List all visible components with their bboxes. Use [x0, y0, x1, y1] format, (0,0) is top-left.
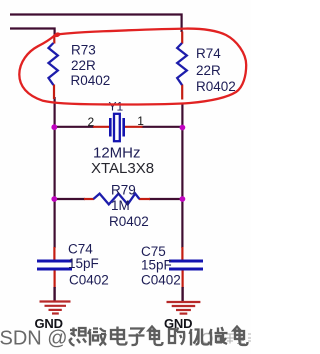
pin lead C75 top: [181, 247, 183, 260]
node junction dot R79-row right: [180, 196, 186, 202]
svg-text:15pF: 15pF: [141, 258, 172, 273]
wire top net1 horizontal: [10, 15, 182, 33]
龟: [149, 327, 163, 346]
的: [169, 328, 184, 345]
svg-text:22R: 22R: [196, 63, 221, 78]
crystal body rect: [114, 114, 120, 141]
svg-text:XTAL3X8: XTAL3X8: [91, 160, 154, 177]
svg-text:1: 1: [137, 114, 144, 128]
watermark CSDN pseudo-CJK glyphs: [69, 327, 248, 346]
wire crystal row left: [55, 126, 94, 128]
svg-text:R79: R79: [111, 183, 136, 198]
pin lead C75 bottom to ground: [182, 271, 184, 289]
node junction dot R79-row left: [51, 196, 57, 202]
watermark corner logo circle: [202, 334, 212, 344]
子: [129, 329, 145, 346]
watermark corner text (faint): [215, 334, 251, 344]
svg-text:2: 2: [88, 115, 95, 129]
机: [190, 329, 210, 346]
pin lead R79 left: [84, 198, 94, 200]
wire C74 to ground: [53, 287, 55, 301]
pin lead C74 top: [53, 247, 55, 260]
resistor R73: [49, 43, 58, 85]
svg-text:C0402: C0402: [141, 273, 181, 288]
svg-text:SDN @: SDN @: [0, 328, 68, 350]
pin lead C74 bottom to ground: [53, 271, 55, 289]
svg-text:C74: C74: [68, 242, 93, 257]
wire R73 bottom to crystal row: [53, 97, 55, 126]
电: [111, 327, 127, 345]
pin lead R73 bottom: [53, 85, 55, 100]
svg-text:15pF: 15pF: [68, 256, 99, 271]
做: [88, 328, 106, 346]
svg-text:R74: R74: [196, 46, 221, 61]
crystal right plate: [122, 118, 125, 137]
node junction dot crystal-row right: [180, 125, 186, 131]
svg-text:R0402: R0402: [196, 79, 236, 94]
wire R79 row right segment: [149, 198, 182, 200]
capacitor C75: [169, 260, 203, 271]
svg-text:1M: 1M: [111, 198, 130, 213]
pin lead R74 top: [181, 32, 183, 44]
svg-text:C0402: C0402: [69, 272, 109, 287]
wire C75 to ground: [181, 287, 183, 301]
wire crystal row right: [142, 126, 183, 128]
ground (right, under C75): [167, 302, 201, 314]
node junction dot crystal-row left: [51, 124, 57, 130]
wire right vertical R79 row to C75: [181, 199, 183, 248]
crystal Y1: [109, 114, 125, 141]
pin lead R74 bottom: [181, 85, 183, 100]
capacitor C74: [37, 260, 72, 271]
annotation red ellipse around R73 R74: [19, 29, 246, 105]
wire left vertical R79 row to C74: [53, 199, 55, 248]
svg-text:R0402: R0402: [109, 214, 149, 229]
pin lead R73 top: [53, 35, 55, 44]
annotation red ellipse knot at stroke overlap: [54, 33, 60, 36]
械: [210, 327, 228, 346]
pin lead R79 right: [139, 198, 150, 200]
resistor R79: [93, 194, 139, 205]
pin lead crystal pin2: [93, 126, 109, 128]
ground (left, under C74): [40, 302, 71, 314]
svg-text:Y1: Y1: [109, 100, 124, 114]
wire top net2 horizontal: [10, 29, 55, 37]
wire R74 bottom to crystal row: [181, 103, 183, 126]
svg-text:22R: 22R: [71, 58, 96, 73]
svg-text:R0402: R0402: [71, 73, 111, 88]
crystal left plate: [109, 118, 112, 137]
wire left vertical crystal row to R79 row: [53, 127, 55, 199]
pin lead crystal pin1: [125, 126, 143, 128]
svg-text:R73: R73: [71, 42, 96, 57]
wire right vertical crystal row to R79 row: [181, 127, 183, 199]
resistor R74: [177, 43, 187, 85]
想: [69, 328, 86, 346]
wire R79 row left segment: [55, 198, 85, 200]
龟: [234, 327, 248, 346]
